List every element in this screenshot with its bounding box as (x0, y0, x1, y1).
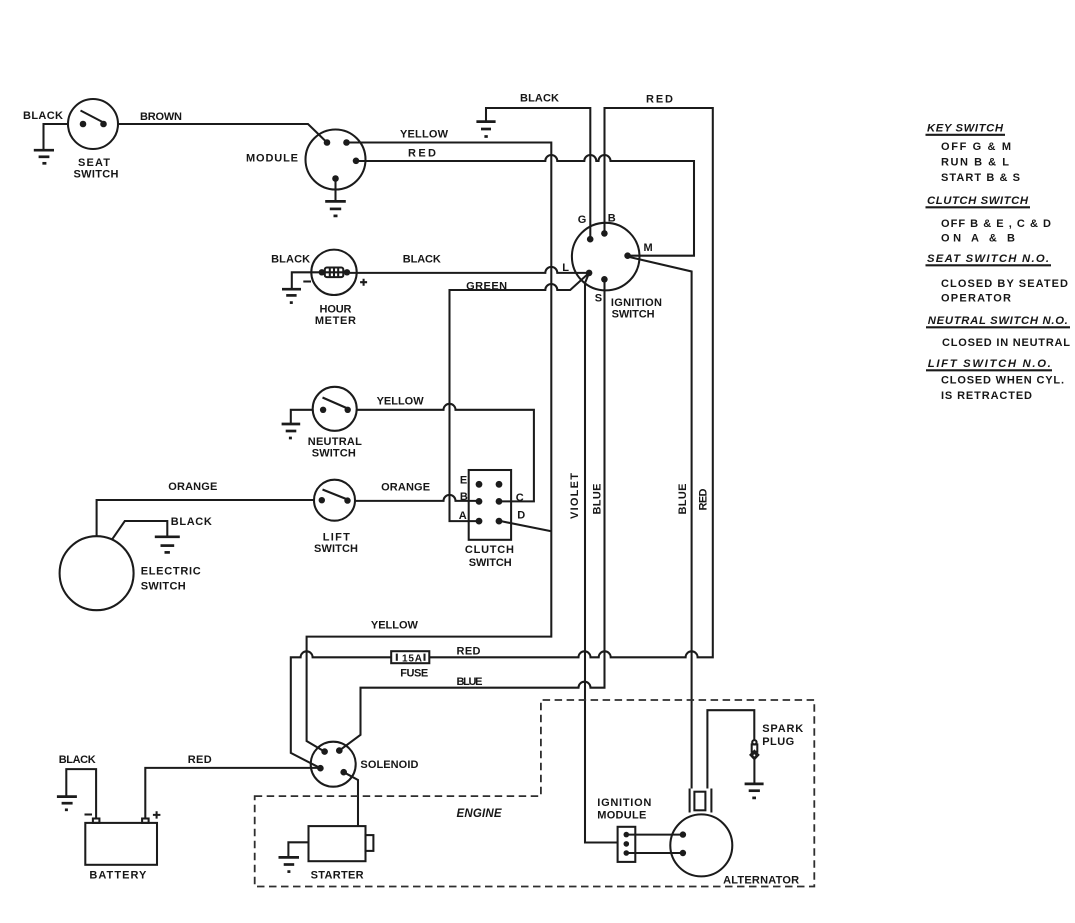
svg-text:E: E (460, 475, 467, 487)
wire starter to ground (288, 842, 308, 857)
svg-text:OFF B & E , C & D: OFF B & E , C & D (941, 218, 1051, 230)
svg-text:YELLOW: YELLOW (377, 396, 425, 408)
svg-text:15A: 15A (402, 654, 422, 665)
svg-text:B: B (608, 213, 616, 225)
svg-text:BLACK: BLACK (59, 754, 96, 766)
note LIFT SWITCH N.O. (926, 358, 1064, 402)
wire solenoid to starter (344, 772, 358, 826)
wire GREEN ignition switch L to clutch switch A (450, 273, 590, 521)
svg-text:ELECTRIC: ELECTRIC (141, 566, 201, 578)
svg-text:SEAT SWITCH N.O.: SEAT SWITCH N.O. (927, 253, 1049, 265)
svg-text:SWITCH: SWITCH (314, 543, 358, 555)
wire ORANGE lift switch to electric switch (97, 481, 314, 536)
svg-text:RED: RED (457, 646, 481, 658)
svg-text:SPARK: SPARK (762, 723, 803, 735)
ground (seat switch) (34, 150, 54, 163)
wire clutch switch D to yellow net (502, 521, 552, 531)
svg-text:CLOSED WHEN CYL.: CLOSED WHEN CYL. (941, 375, 1064, 387)
wire RED ignition switch B loop to fuse and solenoid (291, 94, 713, 769)
electric switch (60, 536, 201, 610)
wire BLACK seat switch to ground (23, 110, 68, 150)
svg-text:BLACK: BLACK (23, 110, 63, 122)
svg-text:IGNITION: IGNITION (611, 297, 662, 309)
fuse 15A (391, 651, 429, 679)
svg-text:FUSE: FUSE (400, 668, 428, 680)
wire YELLOW module to clutch switch D and solenoid (307, 129, 552, 752)
svg-text:YELLOW: YELLOW (371, 620, 419, 632)
lift switch (314, 480, 358, 555)
svg-text:NEUTRAL SWITCH N.O.: NEUTRAL SWITCH N.O. (928, 315, 1068, 327)
svg-text:SOLENOID: SOLENOID (360, 759, 418, 771)
wire BLUE ignition switch M to alternator connector (630, 257, 692, 789)
svg-text:YELLOW: YELLOW (400, 129, 449, 141)
starter (309, 826, 374, 881)
wire ignition module to alternator (upper) (626, 831, 686, 837)
hour meter (303, 250, 367, 327)
svg-text:CLOSED BY SEATED: CLOSED BY SEATED (941, 278, 1068, 290)
svg-text:D: D (517, 510, 525, 522)
svg-text:RED: RED (646, 94, 673, 106)
wire RED battery to solenoid (145, 754, 320, 819)
svg-text:BATTERY: BATTERY (89, 870, 147, 882)
svg-text:CLUTCH: CLUTCH (465, 544, 514, 556)
spark plug (750, 723, 803, 784)
svg-text:BLACK: BLACK (403, 254, 441, 266)
svg-text:STARTER: STARTER (311, 870, 364, 882)
battery (85, 811, 161, 881)
wire BROWN seat switch to module (118, 111, 327, 143)
svg-text:M: M (644, 242, 653, 254)
ground (starter) (279, 857, 300, 871)
svg-text:SWITCH: SWITCH (74, 169, 119, 181)
svg-text:SWITCH: SWITCH (312, 448, 356, 460)
svg-text:C: C (516, 492, 524, 504)
wire ORANGE lift switch to clutch switch B (355, 482, 476, 501)
clutch switch (459, 470, 525, 569)
alternator (670, 814, 799, 886)
neutral switch (308, 387, 362, 460)
ground (hour meter) (282, 289, 301, 302)
svg-text:B: B (460, 491, 468, 503)
svg-text:GREEN: GREEN (466, 281, 507, 293)
wire RED module to ignition switch M (356, 148, 694, 256)
ground (electric switch) (155, 537, 180, 553)
note SEAT SWITCH N.O. (926, 253, 1069, 305)
svg-text:MODULE: MODULE (597, 810, 646, 822)
wire BLACK ignition switch G to ground (486, 93, 590, 239)
svg-text:KEY SWITCH: KEY SWITCH (927, 123, 1004, 135)
svg-text:HOUR: HOUR (320, 304, 352, 316)
svg-text:SEAT: SEAT (78, 157, 110, 169)
svg-text:RED: RED (408, 148, 436, 160)
svg-text:VIOLET: VIOLET (569, 473, 581, 519)
svg-text:RUN B & L: RUN B & L (941, 157, 1009, 169)
svg-text:BLACK: BLACK (520, 93, 559, 105)
svg-text:ENGINE: ENGINE (457, 808, 502, 820)
svg-text:IS RETRACTED: IS RETRACTED (941, 390, 1032, 402)
wire neutral switch to ground (291, 410, 313, 424)
svg-text:A: A (459, 510, 467, 522)
svg-text:SWITCH: SWITCH (612, 309, 655, 321)
wire YELLOW neutral switch to clutch switch C (357, 396, 534, 502)
wire VIOLET ignition switch L to ignition module (569, 273, 618, 843)
svg-text:START B & S: START B & S (941, 172, 1020, 184)
svg-text:SWITCH: SWITCH (141, 581, 186, 593)
wire BLUE ignition switch S to solenoid (339, 279, 604, 750)
svg-text:SWITCH: SWITCH (469, 557, 512, 569)
ignition switch (562, 213, 662, 321)
svg-text:BLACK: BLACK (271, 254, 310, 266)
svg-text:BLUE: BLUE (592, 484, 604, 515)
ground (neutral switch) (282, 424, 301, 438)
svg-text:ORANGE: ORANGE (381, 482, 430, 494)
ground (module) (325, 181, 346, 216)
svg-text:BROWN: BROWN (140, 111, 182, 123)
svg-text:IGNITION: IGNITION (597, 797, 651, 809)
svg-text:ALTERNATOR: ALTERNATOR (723, 875, 799, 887)
note CLUTCH SWITCH (926, 195, 1052, 245)
wire BLACK hour meter to ground (271, 254, 311, 289)
svg-text:G: G (578, 214, 587, 226)
svg-text:RED: RED (188, 754, 212, 766)
seat switch (68, 99, 119, 181)
svg-text:LIFT SWITCH N.O.: LIFT SWITCH N.O. (928, 358, 1051, 370)
svg-text:MODULE: MODULE (246, 153, 298, 165)
svg-text:CLOSED IN NEUTRAL: CLOSED IN NEUTRAL (942, 337, 1070, 349)
svg-text:BLUE: BLUE (457, 676, 483, 688)
wire BLACK battery to ground (59, 754, 96, 819)
svg-text:PLUG: PLUG (762, 736, 794, 748)
svg-text:METER: METER (315, 315, 356, 327)
note KEY SWITCH (926, 123, 1021, 185)
ignition module (597, 797, 651, 862)
wire spark plug lead (707, 710, 754, 788)
ground (spark plug) (745, 784, 764, 798)
solenoid (311, 742, 419, 787)
svg-text:CLUTCH SWITCH: CLUTCH SWITCH (927, 195, 1029, 207)
wire BLACK hour meter to ignition switch L (350, 254, 589, 273)
svg-text:S: S (595, 293, 602, 305)
wire BLACK electric switch to ground (112, 516, 212, 540)
svg-text:LIFT: LIFT (323, 532, 350, 544)
alternator connector (690, 789, 712, 813)
svg-text:BLACK: BLACK (171, 516, 212, 528)
ground (top black wire) (476, 122, 495, 137)
engine boundary (dashed) (255, 700, 815, 887)
note NEUTRAL SWITCH N.O. (926, 315, 1070, 349)
svg-text:ORANGE: ORANGE (168, 481, 217, 493)
wire ignition module to alternator (lower) (626, 850, 686, 856)
svg-text:NEUTRAL: NEUTRAL (308, 436, 362, 448)
ground (battery) (57, 797, 77, 810)
svg-text:BLUE: BLUE (677, 484, 689, 515)
module (246, 130, 366, 190)
svg-text:RED: RED (698, 488, 710, 510)
